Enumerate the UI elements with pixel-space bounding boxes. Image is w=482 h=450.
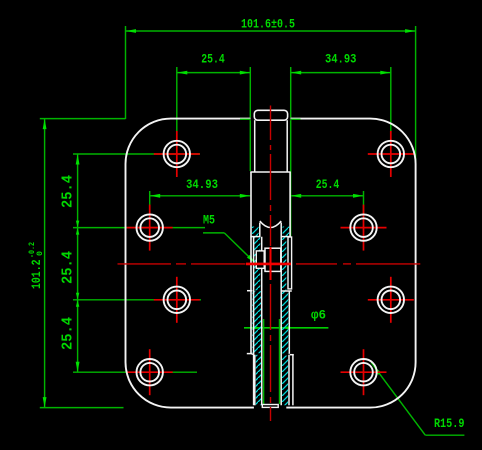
svg-text:25.4: 25.4: [316, 177, 340, 192]
svg-text:M5: M5: [203, 213, 215, 228]
svg-text:25.4: 25.4: [59, 175, 76, 208]
svg-text:25.4: 25.4: [59, 251, 76, 284]
svg-text:25.4: 25.4: [201, 51, 225, 66]
svg-text:-0.2: -0.2: [28, 242, 37, 258]
svg-text:R15.9: R15.9: [434, 416, 465, 431]
svg-text:101.6±0.5: 101.6±0.5: [241, 17, 295, 32]
svg-text:φ6: φ6: [311, 308, 326, 323]
svg-text:34.93: 34.93: [325, 51, 357, 66]
svg-text:101.2: 101.2: [29, 259, 44, 289]
svg-text:25.4: 25.4: [59, 317, 76, 350]
svg-text:34.93: 34.93: [186, 177, 218, 192]
